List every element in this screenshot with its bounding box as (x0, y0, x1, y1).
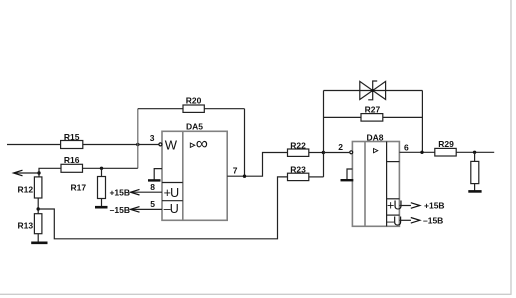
svg-text:–U: –U (164, 202, 179, 216)
resistor R22 (288, 140, 309, 156)
wire R22 right to node (309, 152, 324, 154)
resistor R27 (361, 105, 383, 122)
pin 7 output wire (227, 153, 287, 177)
pin 6 output wire (399, 151, 434, 153)
page border bottom (0, 293, 512, 295)
op-amp U2 DA8 box (352, 133, 402, 229)
svg-text:5: 5 (150, 199, 155, 209)
node junction R20/R16 riser on pin3 wire (136, 143, 139, 146)
node R12/R13 junction (37, 207, 40, 210)
arrow -15V into pin5 (131, 207, 140, 213)
pin +U supply wire DA8 (399, 205, 411, 207)
ground pin DA5 (NC input) (154, 169, 162, 180)
svg-text:6: 6 (404, 142, 409, 152)
pin 5 wire -U (132, 208, 163, 210)
wire R17 to ground (101, 199, 103, 207)
resistor R13 (18, 214, 42, 234)
wire R20 right riser down to pin7 wire (244, 109, 246, 177)
wire feedback right riser (421, 91, 423, 153)
resistor load (unlabeled) (471, 161, 479, 183)
pin -U supply wire DA8 (399, 219, 411, 221)
node arrow junction (37, 171, 40, 174)
wire R15 to pin3 (83, 144, 159, 146)
node pin6 feedback junction (420, 151, 423, 154)
wire load to ground (474, 184, 476, 191)
svg-text:–15B: –15B (423, 216, 443, 226)
svg-text:R12: R12 (18, 185, 34, 195)
node summing junction (322, 151, 325, 154)
wire R27 branch right (383, 116, 423, 118)
svg-text:+15B: +15B (424, 201, 445, 211)
svg-text:R29: R29 (438, 139, 454, 149)
svg-text:7: 7 (233, 166, 238, 176)
svg-text:+15B: +15B (109, 188, 130, 198)
arrow +15V DA8 (411, 203, 420, 209)
wire arrow output left (15, 172, 39, 174)
resistor R17 (71, 168, 106, 198)
diode VD pair bidirectional (360, 81, 386, 100)
node R17 junction (100, 167, 103, 170)
wire R16 right to riser (83, 167, 138, 169)
svg-text:DA5: DA5 (186, 122, 203, 132)
page border right (510, 0, 512, 295)
svg-text:–U: –U (387, 214, 402, 228)
wire R12 to R13 (37, 198, 39, 214)
svg-text:+U: +U (164, 186, 179, 200)
ground pin DA8 (non-inverting input) (347, 169, 352, 180)
resistor R15 (61, 132, 83, 149)
svg-text:W: W (165, 137, 178, 152)
svg-text:R13: R13 (18, 221, 34, 231)
svg-text:–15B: –15B (110, 205, 130, 215)
svg-text:R22: R22 (290, 140, 306, 150)
wire R23 right to node riser (309, 176, 324, 178)
wire R20 left horizontal (138, 108, 183, 110)
arrow head output left (14, 170, 23, 176)
resistor R12 (18, 177, 42, 198)
svg-text:R23: R23 (290, 164, 306, 174)
resistor R20 (183, 95, 204, 112)
pin 3 input circle (159, 143, 162, 146)
svg-text:R20: R20 (186, 95, 202, 105)
op-amp U1 DA5 box (162, 122, 227, 221)
node output load junction (473, 151, 476, 154)
wire R29 right output (456, 151, 494, 153)
svg-text:R15: R15 (64, 132, 80, 142)
resistor R16 (61, 155, 83, 172)
node pin7/R20 junction (243, 175, 246, 178)
wire R27 branch left (324, 116, 362, 118)
resistor R23 (288, 164, 309, 180)
wire node to pin2 (324, 152, 350, 154)
svg-text:R16: R16 (64, 155, 80, 165)
svg-text:DA8: DA8 (366, 133, 383, 143)
wire riser x137.8 R20-left down to R16 (137, 109, 139, 169)
wire feedback bottom: junction to R23 left (38, 177, 287, 239)
svg-text:R27: R27 (365, 105, 381, 115)
svg-text:8: 8 (150, 182, 155, 192)
pin 8 wire +U (132, 191, 163, 193)
ground under R17 (95, 206, 108, 209)
resistor R29 (435, 139, 456, 156)
svg-text:2: 2 (338, 142, 343, 152)
wire R20 right horizontal (204, 108, 244, 110)
pin 2 input circle (350, 151, 353, 154)
svg-text:R17: R17 (71, 183, 87, 193)
wire feedback left riser (323, 91, 325, 177)
wire R16 left corner down (39, 168, 61, 177)
arrow +15V into pin8 (131, 189, 140, 195)
ground under load resistor (468, 190, 481, 193)
wire diode branch top (324, 90, 423, 92)
ground under R13 (31, 242, 47, 245)
wire input line to R15 (7, 144, 61, 146)
wire R13 to ground (37, 234, 39, 243)
wire load resistor top (474, 152, 476, 161)
arrow -15V DA8 (411, 218, 420, 224)
svg-text:3: 3 (150, 133, 155, 143)
svg-text:∞: ∞ (196, 134, 208, 153)
